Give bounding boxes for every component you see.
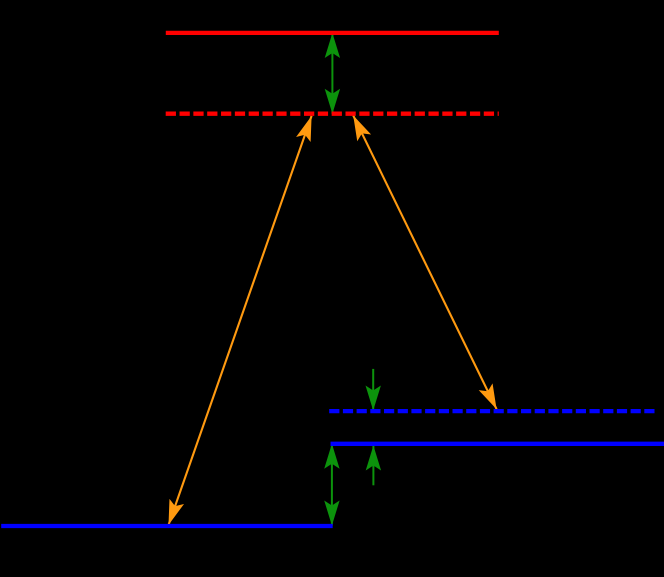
node: blue solid ground level (bottom-left): [1, 524, 333, 528]
wire: orange transition arrow right (emission), double-headed: [353, 115, 496, 409]
wire: green down arrow to blue dashed level: [372, 369, 374, 411]
node: red dashed level: [166, 112, 499, 116]
node: red solid level (upper excited state): [166, 31, 499, 35]
wire: green double arrow between blue levels: [331, 444, 333, 526]
wire: green double arrow between red levels: [331, 33, 333, 114]
wire: orange transition arrow left (pump), double-headed: [169, 116, 312, 525]
node: blue dashed level: [329, 409, 657, 413]
node: blue solid middle level: [331, 442, 664, 446]
wire: green up arrow to blue solid level: [372, 446, 374, 486]
